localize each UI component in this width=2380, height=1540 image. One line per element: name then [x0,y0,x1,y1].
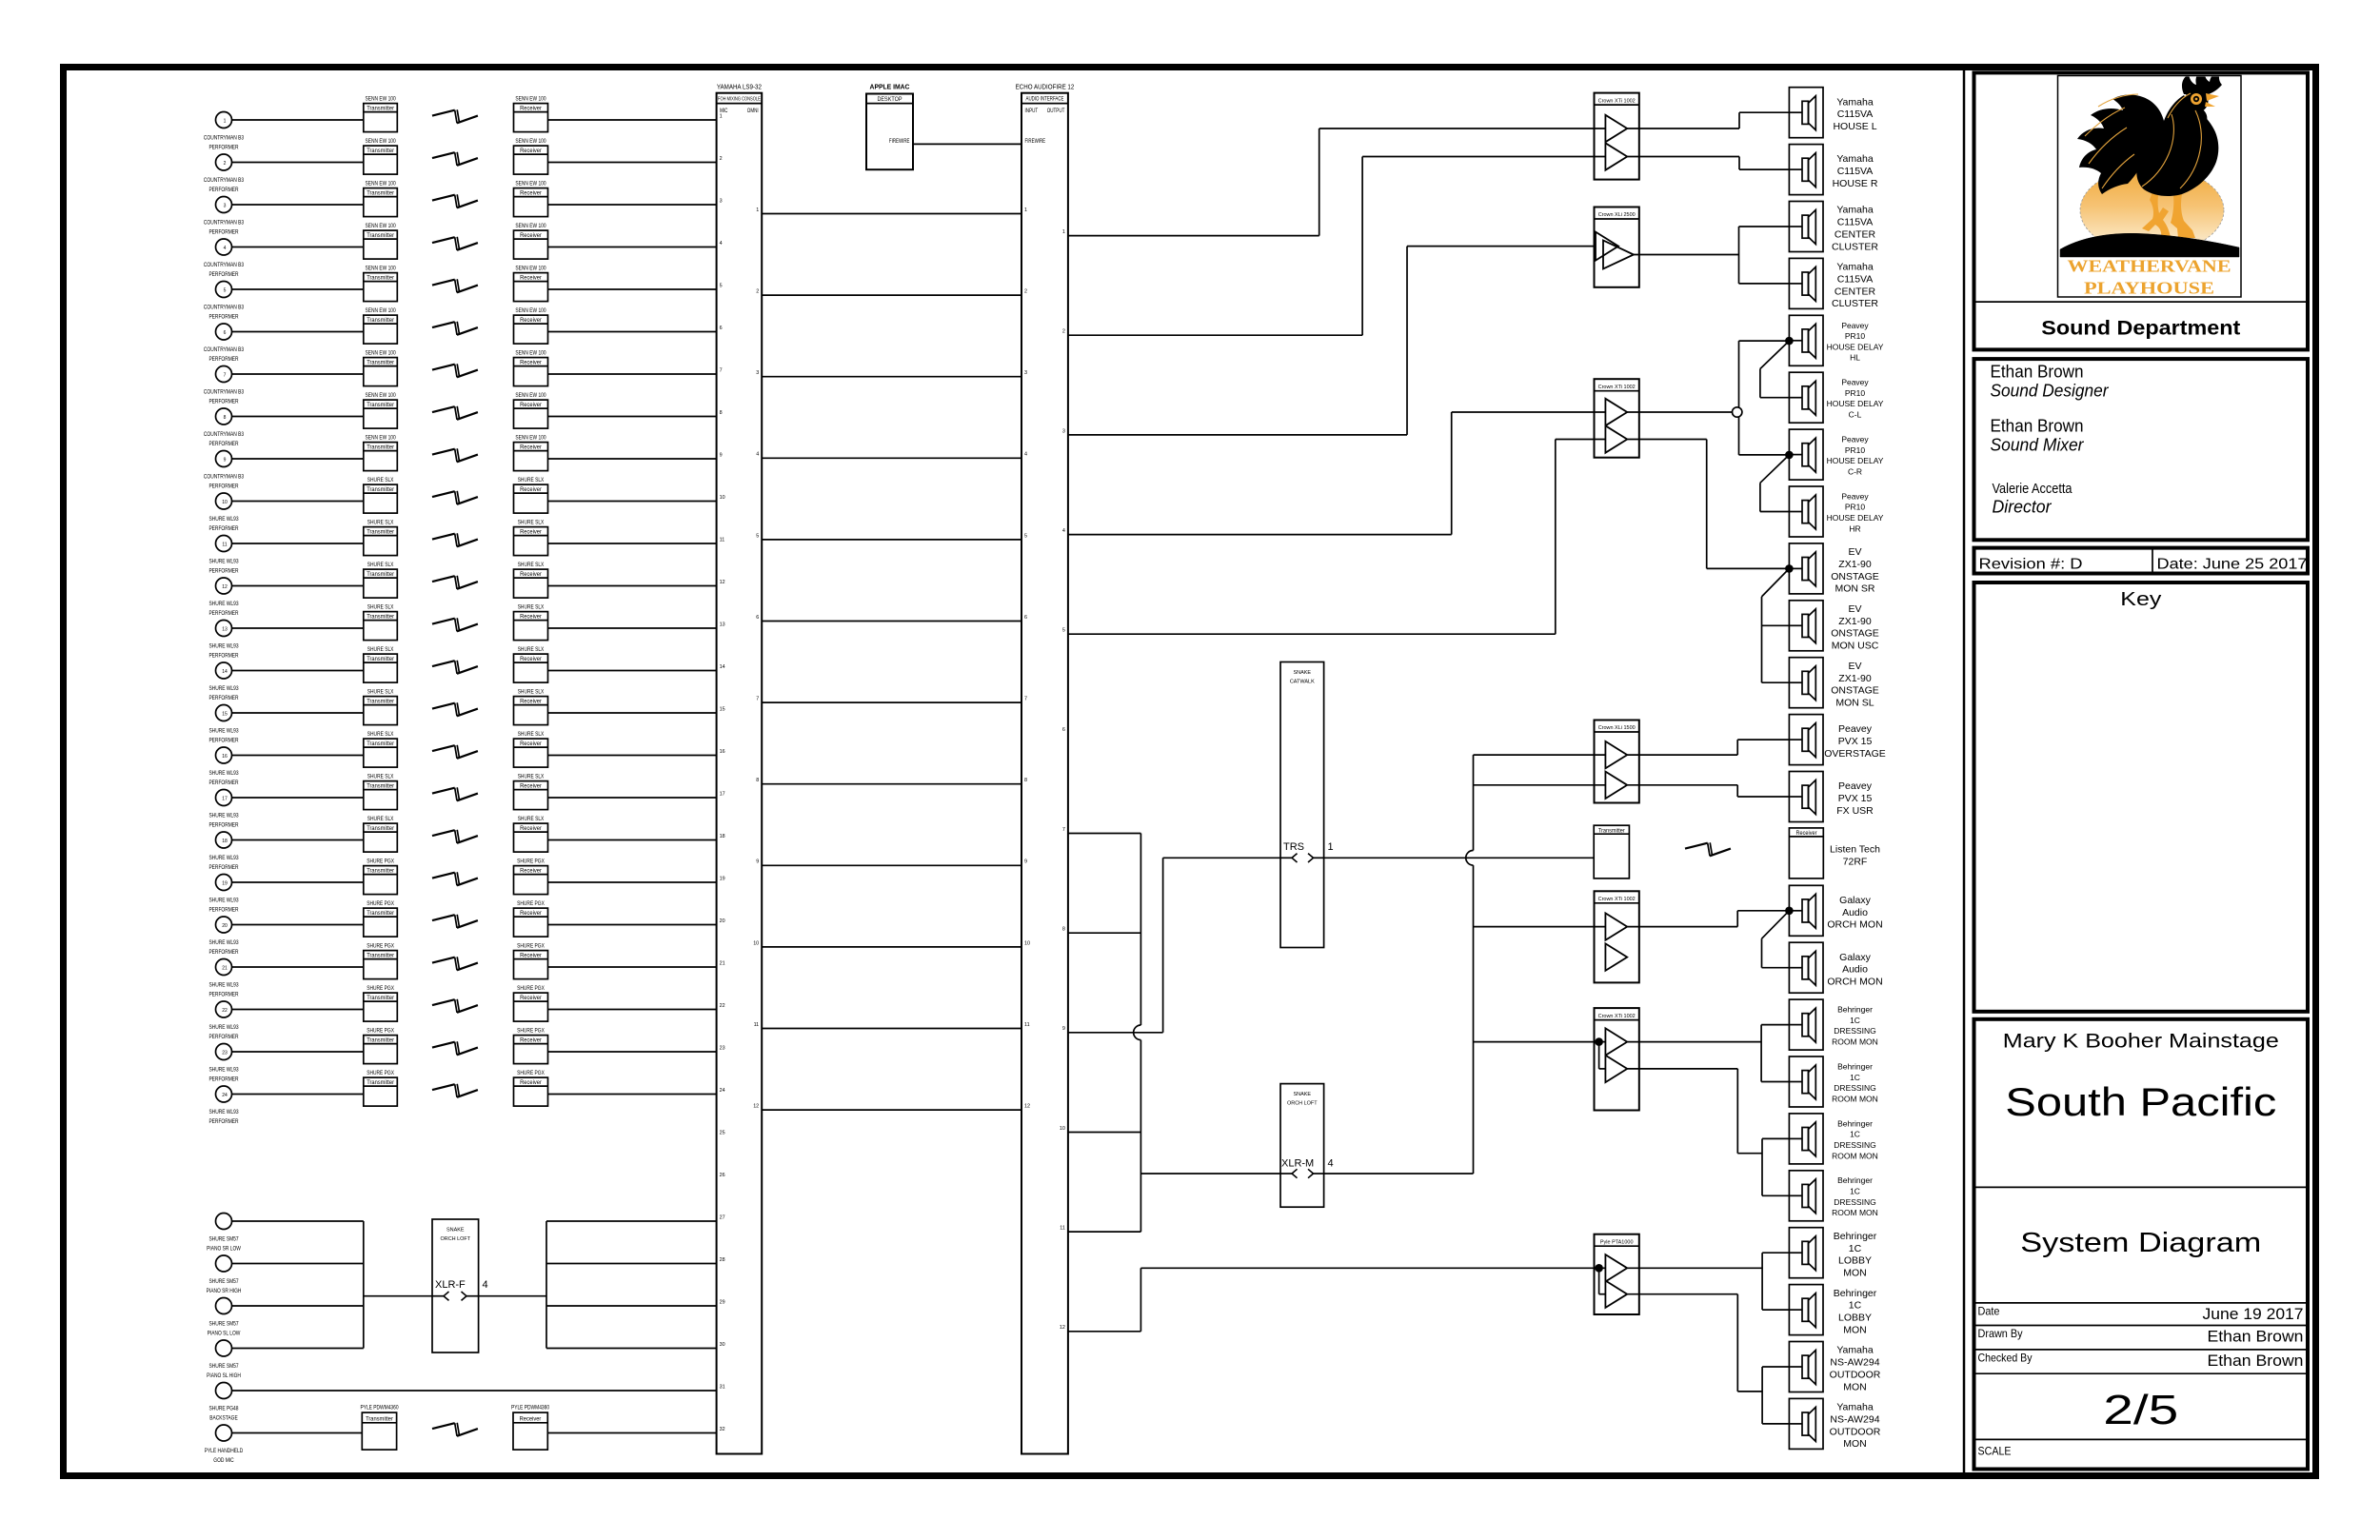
wire amp U6 ch A to dressing room mons 1-2 [1627,1025,1789,1082]
svg-text:AUDIO INTERFACE: AUDIO INTERFACE [1026,97,1064,103]
logo Weathervane Playhouse [2058,69,2242,297]
svg-text:32: 32 [720,1427,725,1432]
wire interface out 2 to amp U1 [1068,157,1606,336]
title block section: show info [1974,1019,2309,1470]
svg-text:10: 10 [222,500,228,505]
wire [232,1305,364,1307]
transmitter SENN EW 100 ch7 [364,350,398,386]
svg-text:PERFORMER: PERFORMER [208,907,239,914]
mic 15 (SHURE WL93 PERFORMER) [208,705,239,744]
svg-text:Transmitter: Transmitter [367,360,394,366]
svg-text:SHURE SLX: SHURE SLX [367,646,394,653]
svg-text:EV: EV [1848,603,1861,615]
wire [546,1220,717,1222]
svg-text:Crown XTi 1002: Crown XTi 1002 [1598,98,1636,104]
mic 31 (SHURE PG48 BACKSTAGE) [209,1383,239,1422]
mic 11 (SHURE WL93 PERFORMER) [208,536,239,575]
svg-text:10: 10 [1060,1126,1065,1132]
svg-text:SHURE SM57: SHURE SM57 [208,1236,239,1243]
svg-text:Sound Mixer: Sound Mixer [1991,436,2085,455]
receiver SHURE SLX ch10 [514,477,548,513]
svg-text:COUNTRYMAN B3: COUNTRYMAN B3 [204,220,245,227]
svg-text:5: 5 [720,283,723,288]
svg-text:22: 22 [222,1008,228,1014]
wire amp U5 to ORCH MON [1627,911,1789,927]
svg-text:SENN EW 100: SENN EW 100 [366,138,397,145]
svg-text:30: 30 [720,1342,725,1348]
svg-text:PERFORMER: PERFORMER [208,1118,239,1125]
svg-text:10: 10 [753,940,759,946]
receiver SHURE SLX ch13 [514,604,548,641]
transmitter Listen Tech [1594,825,1629,879]
svg-text:23: 23 [720,1045,725,1051]
speaker Behringer 1C DRESSING ROOM MON 3 [1789,1114,1877,1164]
svg-text:PERFORMER: PERFORMER [208,441,239,447]
wire [548,331,717,333]
wire [232,1051,364,1053]
svg-text:SHURE PG48: SHURE PG48 [209,1406,239,1412]
svg-text:10: 10 [1024,940,1030,946]
svg-text:SHURE SLX: SHURE SLX [367,774,394,780]
wire interface out 7 to snake bus [1068,833,1141,835]
svg-text:Transmitter: Transmitter [367,571,394,578]
wire [232,712,364,714]
svg-text:SENN EW 100: SENN EW 100 [366,181,397,188]
junction MON SR [1785,564,1794,573]
mic 8 (COUNTRYMAN B3 PERFORMER) [204,408,245,447]
mic 2 (COUNTRYMAN B3 PERFORMER) [204,154,245,193]
wireless link [432,237,478,250]
wireless link [432,702,478,716]
svg-text:Sound Designer: Sound Designer [1991,382,2110,401]
speaker Yamaha C115VA HOUSE L [1789,88,1876,138]
snake ORCH LOFT (XLR-M x4) [1280,1084,1334,1208]
wire console omni 2 to interface input 2 [762,294,1021,296]
svg-text:SENN EW 100: SENN EW 100 [515,138,546,145]
mic 7 (COUNTRYMAN B3 PERFORMER) [204,366,245,405]
svg-text:C-R: C-R [1848,466,1862,476]
wire interface out 3 to amp U2 [1068,247,1596,435]
transmitter PYLE PDWM4360 [360,1405,399,1451]
wireless link [432,1041,478,1055]
wire [232,416,364,418]
svg-text:SHURE SLX: SHURE SLX [518,689,545,696]
svg-text:1C: 1C [1850,1016,1860,1025]
svg-text:18: 18 [222,839,228,844]
svg-text:SHURE PGX: SHURE PGX [517,985,545,992]
svg-text:DRESSING: DRESSING [1834,1083,1875,1093]
svg-text:Yamaha: Yamaha [1836,96,1873,108]
svg-text:2: 2 [1024,289,1027,295]
svg-text:ORCH MON: ORCH MON [1827,919,1882,931]
svg-text:Transmitter: Transmitter [367,910,394,917]
transmitter SENN EW 100 ch2 [364,138,398,174]
svg-text:Galaxy: Galaxy [1839,952,1871,963]
receiver SENN EW 100 ch3 [514,181,548,217]
mixing console YAMAHA LS9-32 [717,84,763,1453]
credit director [1993,482,2073,517]
wire console omni 12 to interface input 12 [762,1109,1021,1111]
svg-text:Receiver: Receiver [520,740,542,747]
svg-text:11: 11 [754,1022,760,1028]
svg-text:1: 1 [756,207,759,213]
wire TRS snake to Listen Tech transmitter [1324,857,1595,859]
svg-text:SHURE SLX: SHURE SLX [367,816,394,822]
transmitter SHURE PGX ch23 [364,1028,398,1064]
wire [548,373,717,375]
svg-text:Receiver: Receiver [520,995,542,1001]
svg-text:Receiver: Receiver [520,232,542,239]
svg-text:SHURE WL93: SHURE WL93 [208,1067,239,1074]
svg-text:SENN EW 100: SENN EW 100 [515,307,546,314]
svg-text:6: 6 [1024,615,1027,621]
svg-text:27: 27 [720,1214,725,1220]
svg-text:SENN EW 100: SENN EW 100 [515,223,546,229]
wireless link [432,872,478,885]
svg-text:16: 16 [720,749,725,755]
svg-text:HR: HR [1849,523,1860,533]
svg-text:PERFORMER: PERFORMER [208,949,239,956]
mic 21 (SHURE WL93 PERFORMER) [208,959,239,998]
svg-text:SHURE PGX: SHURE PGX [517,943,545,950]
svg-text:SHURE SLX: SHURE SLX [518,774,545,780]
svg-text:SNAKE: SNAKE [446,1228,465,1234]
speaker Behringer 1C DRESSING ROOM MON 1 [1789,999,1877,1050]
receiver SHURE SLX ch18 [514,816,548,852]
svg-text:SHURE SM57: SHURE SM57 [208,1278,239,1285]
svg-text:South Pacific: South Pacific [2005,1079,2276,1124]
mic 29 (SHURE SM57 PIANO SL LOW) [208,1298,241,1337]
wire ORCH MON 1 to ORCH MON 2 [1762,911,1790,968]
svg-text:CLUSTER: CLUSTER [1832,241,1878,252]
svg-text:PERFORMER: PERFORMER [208,525,239,532]
wire amp U7 ch A to lobby mons [1627,1253,1789,1310]
svg-text:Receiver: Receiver [520,614,542,621]
svg-text:ZX1-90: ZX1-90 [1838,616,1872,627]
svg-text:Behringer: Behringer [1837,1175,1873,1185]
receiver Listen Tech 72RF [1789,828,1880,879]
svg-text:PIANO SR LOW: PIANO SR LOW [207,1246,241,1253]
wire [548,797,717,799]
svg-text:7: 7 [720,367,723,373]
wire [232,966,364,968]
wire riser to amp U5 [1474,926,1606,928]
svg-text:SNAKE: SNAKE [1294,670,1312,676]
svg-text:Receiver: Receiver [520,1079,542,1086]
mic 12 (SHURE WL93 PERFORMER) [208,578,239,617]
svg-text:SHURE SLX: SHURE SLX [518,477,545,484]
speaker Peavey PR10 HOUSE DELAY HL [1789,315,1883,365]
wire [548,627,717,629]
svg-text:7: 7 [224,373,227,379]
wire interface out 11 to snake bus [1068,1231,1141,1233]
svg-text:Listen Tech: Listen Tech [1830,843,1880,855]
wire [548,288,717,290]
svg-text:8: 8 [1024,778,1027,783]
wire [232,1220,364,1222]
wire [548,501,717,503]
wire [548,119,717,121]
wireless link [432,152,478,166]
wire [232,1263,364,1265]
svg-text:PERFORMER: PERFORMER [208,484,239,490]
svg-text:SHURE WL93: SHURE WL93 [208,982,239,989]
svg-text:4: 4 [756,452,759,458]
wire amp U7 ch B to outdoor mons [1627,1294,1789,1424]
svg-text:1C: 1C [1849,1243,1862,1254]
wireless link [432,322,478,335]
svg-text:PR10: PR10 [1845,445,1866,455]
svg-text:ROOM MON: ROOM MON [1832,1094,1878,1103]
svg-text:Director: Director [1993,497,2053,517]
svg-text:Pyle PTA1000: Pyle PTA1000 [1600,1239,1634,1245]
wire [548,712,717,714]
svg-text:PYLE PDWM4360: PYLE PDWM4360 [360,1405,399,1412]
svg-text:Receiver: Receiver [520,275,542,282]
svg-text:10: 10 [720,495,725,501]
svg-text:OUTDOOR: OUTDOOR [1830,1369,1881,1380]
svg-text:PR10: PR10 [1845,503,1866,512]
wireless link [432,109,478,123]
svg-text:Behringer: Behringer [1837,1062,1873,1072]
svg-text:Receiver: Receiver [520,783,542,790]
mic 18 (SHURE WL93 PERFORMER) [208,832,239,871]
svg-text:SNAKE: SNAKE [1294,1092,1312,1097]
svg-text:OVERSTAGE: OVERSTAGE [1824,748,1886,760]
svg-text:Crown XTi 1002: Crown XTi 1002 [1598,897,1636,902]
svg-text:Transmitter: Transmitter [367,825,394,832]
svg-text:6: 6 [1062,727,1065,733]
wire interface out 5 to amp U3 [1068,440,1606,635]
wire [548,839,717,841]
divider [1974,1372,2309,1374]
svg-text:PERFORMER: PERFORMER [208,568,239,575]
wireless link [432,830,478,843]
wire interface out 9 to TRS snake [1068,858,1280,1033]
svg-text:Transmitter: Transmitter [367,868,394,875]
divider [1974,1302,2309,1304]
wire [548,881,717,883]
svg-text:SHURE WL93: SHURE WL93 [208,898,239,904]
svg-text:APPLE IMAC: APPLE IMAC [870,84,910,90]
svg-text:PERFORMER: PERFORMER [208,314,239,321]
svg-text:SHURE PGX: SHURE PGX [367,985,394,992]
svg-text:ROOM MON: ROOM MON [1832,1037,1878,1047]
transmitter SHURE SLX ch12 [364,562,398,598]
svg-text:Revision #: D: Revision #: D [1979,557,2083,573]
svg-text:PIANO SL LOW: PIANO SL LOW [208,1331,241,1337]
svg-text:26: 26 [720,1173,725,1178]
svg-text:Transmitter: Transmitter [367,699,394,705]
svg-text:SENN EW 100: SENN EW 100 [366,392,397,399]
svg-text:CENTER: CENTER [1835,286,1876,297]
svg-text:13: 13 [720,622,725,627]
svg-text:21: 21 [720,960,725,966]
svg-text:Audio: Audio [1842,907,1868,918]
svg-text:ZX1-90: ZX1-90 [1838,559,1872,570]
svg-text:19: 19 [222,881,228,887]
svg-text:DESKTOP: DESKTOP [877,96,902,103]
mic 1 (COUNTRYMAN B3 PERFORMER) [204,112,245,151]
wire [548,1009,717,1011]
svg-text:PERFORMER: PERFORMER [208,780,239,786]
mic 28 (SHURE SM57 PIANO SR HIGH) [207,1255,242,1294]
wire riser to amp U4 ch A [1474,754,1606,756]
svg-text:Transmitter: Transmitter [367,656,394,662]
svg-text:MON USC: MON USC [1832,641,1879,652]
wire [232,501,364,503]
svg-text:PERFORMER: PERFORMER [208,738,239,744]
svg-text:31: 31 [720,1384,725,1390]
wire amp U4 ch B to FX USR [1627,785,1789,797]
wire [548,543,717,544]
svg-text:1C: 1C [1850,1130,1860,1139]
speaker Yamaha C115VA CENTER CLUSTER 1 [1789,202,1878,253]
svg-text:PERFORMER: PERFORMER [208,695,239,701]
wire console omni 10 to interface input 10 [762,946,1021,948]
svg-text:WEATHERVANE: WEATHERVANE [2068,256,2231,275]
svg-text:SHURE WL93: SHURE WL93 [208,1024,239,1031]
speaker Yamaha C115VA HOUSE R [1789,145,1877,195]
svg-text:PR10: PR10 [1845,388,1866,398]
wire [232,204,364,206]
svg-text:6: 6 [224,330,227,336]
svg-text:Ethan Brown: Ethan Brown [2208,1328,2304,1346]
wire [548,416,717,418]
svg-text:4: 4 [483,1279,488,1291]
svg-text:SHURE WL93: SHURE WL93 [208,813,239,819]
wire [232,839,364,841]
svg-text:PERFORMER: PERFORMER [208,399,239,405]
speaker EV ZX1-90 ONSTAGE MON SL [1789,658,1878,709]
svg-text:11: 11 [1024,1022,1030,1028]
svg-text:INPUT: INPUT [1025,108,1039,114]
wire snake to console bus [479,1295,546,1297]
wire amp U3 ch A to house delay bus [1627,341,1789,455]
svg-text:FOH MIXING CONSOLE: FOH MIXING CONSOLE [718,97,761,103]
svg-text:SHURE SLX: SHURE SLX [367,477,394,484]
svg-text:72RF: 72RF [1843,856,1868,867]
svg-text:9: 9 [1024,859,1027,865]
wire [232,331,364,333]
wire [548,162,717,164]
svg-text:XLR-F: XLR-F [435,1279,466,1291]
svg-text:11: 11 [1060,1226,1065,1232]
divider [1974,1325,2309,1327]
svg-text:1C: 1C [1849,1300,1862,1312]
svg-text:SHURE SLX: SHURE SLX [518,646,545,653]
transmitter SENN EW 100 ch5 [364,266,398,302]
wire interface out 4 to amp U3 [1068,412,1606,535]
wire [232,924,364,926]
svg-text:1: 1 [720,113,723,119]
transmitter SENN EW 100 ch3 [364,181,398,217]
svg-text:Transmitter: Transmitter [367,614,394,621]
snake bus vertical wire with hop over out 9 [1134,834,1141,1233]
wire [232,670,364,672]
amplifier U3 Crown XTi 1002 [1595,379,1639,458]
wire [232,543,364,544]
wire [546,1305,717,1307]
bus wire joining piano mics [363,1221,365,1349]
wire [548,204,717,206]
mic 9 (COUNTRYMAN B3 PERFORMER) [204,451,245,490]
svg-text:16: 16 [222,754,228,760]
svg-text:2: 2 [224,161,227,167]
wire amp U1 ch B to HOUSE R [1627,157,1789,170]
svg-text:COUNTRYMAN B3: COUNTRYMAN B3 [204,305,245,311]
receiver SHURE SLX ch11 [514,520,548,556]
speaker Galaxy Audio ORCH MON 2 [1789,942,1882,993]
svg-text:DRESSING: DRESSING [1834,1140,1875,1150]
svg-text:SENN EW 100: SENN EW 100 [515,96,546,103]
junction ORCH MON [1785,907,1794,916]
wire C-R to HR [1760,455,1790,512]
svg-text:Behringer: Behringer [1834,1288,1877,1299]
svg-text:28: 28 [720,1257,725,1263]
wireless link [432,745,478,759]
svg-text:ONSTAGE: ONSTAGE [1831,685,1879,697]
wire [546,1348,717,1350]
svg-text:15: 15 [222,712,228,718]
svg-text:SHURE WL93: SHURE WL93 [208,601,239,607]
svg-text:Receiver: Receiver [520,699,542,705]
svg-text:Peavey: Peavey [1838,723,1873,735]
svg-text:PERFORMER: PERFORMER [208,864,239,871]
speaker Behringer 1C DRESSING ROOM MON 2 [1789,1056,1877,1107]
wireless link [432,364,478,377]
wire [232,162,364,164]
mic 3 (COUNTRYMAN B3 PERFORMER) [204,197,245,236]
svg-text:GOD MIC: GOD MIC [213,1457,234,1464]
mic 23 (SHURE WL93 PERFORMER) [208,1044,239,1083]
receiver SHURE PGX ch21 [514,943,548,979]
svg-text:SHURE PGX: SHURE PGX [517,859,545,865]
junction inside amp U7 [1595,1264,1605,1294]
wire XLR-M snake to amp riser (hop over TRS wire) [1324,755,1474,1174]
speaker EV ZX1-90 ONSTAGE MON USC [1789,601,1878,652]
svg-text:SENN EW 100: SENN EW 100 [366,96,397,103]
wire [232,1390,717,1392]
svg-text:EV: EV [1848,661,1861,672]
svg-text:SENN EW 100: SENN EW 100 [366,435,397,442]
wireless link [432,1084,478,1097]
svg-text:NS-AW294: NS-AW294 [1830,1414,1879,1426]
svg-text:Peavey: Peavey [1841,378,1869,387]
svg-text:COUNTRYMAN B3: COUNTRYMAN B3 [204,262,245,268]
svg-text:21: 21 [222,966,228,972]
wire [232,373,364,375]
junction C-R [1785,451,1794,460]
speaker Behringer 1C DRESSING ROOM MON 4 [1789,1171,1877,1221]
svg-text:Transmitter: Transmitter [367,995,394,1001]
svg-text:Receiver: Receiver [520,868,542,875]
svg-text:Ethan Brown: Ethan Brown [1991,417,2084,436]
transmitter SHURE SLX ch15 [364,689,398,725]
svg-text:SHURE PGX: SHURE PGX [517,1028,545,1035]
svg-text:9: 9 [720,452,723,458]
svg-text:SHURE SLX: SHURE SLX [518,604,545,611]
svg-text:Transmitter: Transmitter [367,529,394,536]
svg-text:17: 17 [720,791,725,797]
svg-text:8: 8 [224,415,227,421]
wire [232,881,364,883]
mic 5 (COUNTRYMAN B3 PERFORMER) [204,282,245,321]
svg-text:Checked By: Checked By [1978,1352,2033,1365]
svg-text:ORCH LOFT: ORCH LOFT [441,1236,471,1242]
divider [1974,1349,2309,1351]
wire [232,247,364,248]
